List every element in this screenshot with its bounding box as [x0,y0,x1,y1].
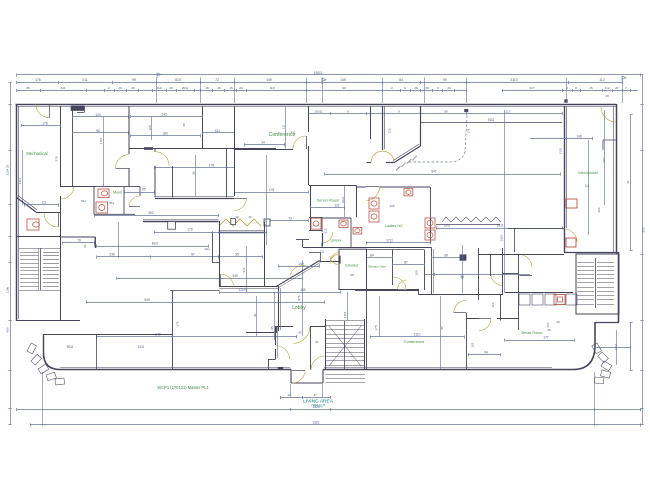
svg-text:175: 175 [269,188,275,192]
door arc ladies [366,187,380,201]
svg-text:212: 212 [604,86,609,90]
wall y187 ladies top [357,186,431,188]
kitchen counters [519,294,530,305]
svg-text:29: 29 [605,94,609,98]
svg-text:176: 176 [35,78,41,82]
door arc right top [601,107,616,122]
bottom-left inner wall y334 [44,334,173,336]
svg-text:47: 47 [313,393,317,397]
svg-text:217: 217 [505,109,510,113]
exterior top wall inner face [16,106,617,108]
door arc x155 [155,152,169,166]
svg-text:49: 49 [235,215,239,219]
entry stair rail [344,321,346,370]
svg-text:27: 27 [615,86,619,90]
dim vert x344 [344,186,346,218]
svg-text:25: 25 [589,86,593,90]
exterior bottom wall 2 [323,369,573,371]
wall x479 [478,248,480,300]
svg-text:9011: 9011 [67,345,74,349]
svg-text:2110: 2110 [510,78,517,82]
svg-text:278: 278 [55,156,59,161]
svg-text:1111: 1111 [18,178,22,184]
svg-text:170: 170 [209,163,215,167]
door arc mechanical bottom [61,186,74,199]
wall y197.4 thick [155,196,234,198]
wall x219.5 [219,221,221,287]
red toilet R2 [425,230,435,240]
svg-text:Elevator Gate: Elevator Gate [368,264,386,268]
wall x275 living [275,326,277,359]
svg-text:84: 84 [370,253,374,257]
wall y148.5 [129,148,276,150]
wall x393 [392,250,394,286]
svg-text:14: 14 [261,141,265,145]
svg-text:125: 125 [389,204,394,208]
column box 1 [168,222,176,230]
exterior right wall x616 [616,104,618,254]
door arc top-left [36,104,50,118]
wall x420 bay [420,106,422,146]
thick wall y231.5 [219,230,265,232]
dim 29 line [425,274,530,276]
wall jog x276 [276,326,278,333]
dim 149 lobby [279,266,320,268]
right inner dim x631 [630,115,632,250]
wall x95 below [96,334,98,369]
svg-text:29: 29 [414,86,418,90]
svg-text:119: 119 [491,302,495,307]
dim 611 line [203,132,235,134]
svg-text:149: 149 [298,262,304,266]
dim vert x440 [440,296,442,369]
wall x436 [431,248,433,296]
svg-text:111: 111 [320,249,325,253]
svg-text:29: 29 [118,86,122,90]
svg-text:95: 95 [235,253,239,257]
wall y326 lobby bottom [277,326,294,328]
dim 189 line [131,135,200,137]
dim 79 corridor [63,242,95,244]
zigzag insulation wall [442,217,501,222]
red toilet mens [98,189,109,198]
entry door arc [292,370,305,383]
svg-text:29: 29 [239,86,243,90]
svg-text:8111: 8111 [152,242,159,246]
svg-text:94: 94 [484,350,488,354]
dim 149 right [530,138,592,140]
svg-text:Unisex: Unisex [331,239,342,243]
svg-text:111: 111 [281,124,285,129]
svg-text:179: 179 [187,228,193,232]
entry stair diag [329,326,361,366]
svg-text:810: 810 [324,228,328,233]
svg-text:1810: 1810 [614,343,618,350]
wall x564 vertical [564,106,566,252]
door arc right mech bottom [564,229,577,242]
column on bottom wall [278,367,283,370]
kitchen wall y293 [505,292,573,294]
dim 95 roomA [72,132,129,134]
wall y212 vestibule top [36,212,61,214]
svg-text:1210: 1210 [238,288,245,292]
dim 547 line [325,174,560,176]
interior dim line y113 [309,113,563,115]
wall x308 server left [308,106,310,185]
dim vert x257 [256,296,258,336]
stairs left flight A [20,252,38,254]
svg-text:124: 124 [95,113,101,117]
door arc conference east [454,300,467,313]
wall x72 [72,106,74,187]
stairs left rail [40,248,42,290]
witness flag right [622,76,626,81]
corridor wall y252 left [309,252,321,254]
thick wall y220.7 [143,219,219,221]
wall x515 [514,228,516,252]
exterior left wall [16,104,18,321]
svg-text:1711: 1711 [386,239,393,243]
dim 159 line [279,292,340,294]
svg-text:89: 89 [26,86,30,90]
dim vert line x22 [22,150,24,205]
wall x61 vestibule right [60,196,62,237]
red toilet L1 [369,198,379,209]
svg-text:511: 511 [242,267,246,272]
dashed line blob [465,109,469,112]
svg-text:29: 29 [131,86,135,90]
dim vert x347 [347,292,349,320]
wall y149 conference [235,149,293,151]
dim y347 right [595,347,631,349]
svg-text:929: 929 [642,227,646,232]
svg-text:91: 91 [253,313,257,317]
gate room top [367,249,425,251]
svg-text:811: 811 [109,201,114,205]
stairs right box [576,254,619,314]
wall y252 right stair top [564,252,619,254]
dim 349 line [117,278,302,280]
dim 87 line [393,264,424,266]
dim vert x379 [379,296,381,337]
wall x172 [172,166,174,197]
door arc kitchen yellow [519,255,532,268]
svg-text:29: 29 [205,86,209,90]
wall y255 upper [479,254,564,256]
svg-text:175: 175 [176,321,180,326]
wall x172 bottom-left [172,291,174,370]
svg-text:167: 167 [546,322,550,327]
window chevrons [219,219,261,226]
door arc vestibule [44,213,58,227]
witness blob x566 [565,100,568,103]
dim vert line x302 [302,260,304,336]
svg-text:211: 211 [82,78,88,82]
stairs right flight A [577,262,594,264]
dim line 111 left [24,204,58,206]
svg-text:99: 99 [342,86,346,90]
svg-text:Mens: Mens [113,191,122,195]
wall x466 conference east [466,313,468,369]
svg-text:72: 72 [215,78,219,82]
svg-text:1710: 1710 [99,137,103,144]
svg-text:149: 149 [340,78,346,82]
svg-text:65: 65 [142,188,146,192]
dim vert x118 [118,222,120,258]
dimension line top row 1 [17,82,622,84]
door arc unisex [322,233,333,244]
dim 121 server [310,207,344,209]
svg-text:Lobby: Lobby [292,305,306,311]
mens box walls [94,187,140,215]
wall x518.5 [518,274,520,330]
wall y224 segment [436,224,500,226]
svg-text:2110: 2110 [559,147,563,154]
wall x264 [264,222,266,287]
wall y186 left [60,186,96,188]
wall y185 server top [309,185,357,187]
svg-text:349: 349 [155,332,161,336]
wall y322 bottom-right [595,322,619,324]
svg-text:42: 42 [287,393,291,397]
svg-text:217: 217 [529,86,534,90]
dim vert x246 [246,246,248,292]
svg-text:125: 125 [388,128,392,133]
wall vestibule diagonal inner [18,196,37,211]
unisex walls [322,217,351,247]
dim 349 line b [96,336,297,338]
svg-text:1011: 1011 [138,345,145,349]
wall y287 double [219,286,278,288]
wall x501 lower [500,294,502,321]
wall x490 [490,255,492,276]
svg-text:143: 143 [161,112,167,116]
bottom-left corner vertical x43 [43,334,45,353]
witness extension lines top [156,78,158,104]
wall y262 closet [212,262,220,264]
wall y332 lobby bottom left [246,332,275,334]
dim vert line x267 [266,155,268,245]
door arc on diagonal [290,266,307,276]
svg-text:61: 61 [626,180,630,184]
wall y123 [421,122,562,124]
door arc vestibule entry [311,356,325,370]
dimension line top row 2 [17,90,383,92]
svg-text:189: 189 [162,132,168,136]
dim 99 line [432,257,461,259]
svg-text:234: 234 [597,207,601,212]
right mech notch [603,140,616,150]
door arc mens [129,196,140,207]
dim line y397 [280,397,330,399]
svg-text:811: 811 [81,199,86,203]
svg-text:101: 101 [471,342,475,347]
wall x311 vestibule [310,326,312,370]
fan stairs bottom-right exterior [592,343,602,354]
wall y237 corridor top left [16,236,61,238]
dim 177 break [505,340,574,342]
wall x155 [154,149,156,198]
dim 14 line [245,144,285,146]
dim 1711 ladies [366,242,430,244]
svg-text:29: 29 [217,86,221,90]
exterior bottom-right rounded corner [573,322,595,370]
dim 94 conf [468,354,500,356]
dim 962 line [94,215,219,217]
svg-text:Conference: Conference [404,339,425,344]
dimension line right outer vertical [642,75,644,425]
red box right lower [566,238,576,247]
wall y228 right block [508,228,564,230]
svg-text:99: 99 [444,253,448,257]
svg-text:204: 204 [602,157,606,162]
svg-text:949: 949 [144,298,150,302]
red box right wall [566,199,577,208]
door arc y287 [221,274,234,287]
dim vert x195 [195,155,197,196]
exterior bottom wall inner face [60,367,290,369]
svg-text:119: 119 [270,86,275,90]
svg-text:95: 95 [96,129,100,133]
red kitchen sink [554,295,565,305]
dimension line top row 2 mid [383,90,466,92]
exterior top wall [16,104,617,106]
red toilet hall [353,227,362,234]
svg-text:95: 95 [298,331,302,335]
svg-text:Elevator: Elevator [345,264,359,268]
svg-text:95: 95 [270,326,274,330]
witness flag 2 [322,78,326,84]
svg-text:95: 95 [182,123,186,127]
wall x564 inner face [566,106,568,228]
svg-text:111: 111 [585,184,590,188]
svg-text:210: 210 [156,86,161,90]
wall x212 [212,232,214,263]
dim 176 mechanical [22,125,61,127]
svg-text:159: 159 [300,288,306,292]
wall corridor jog [61,237,96,247]
svg-text:99: 99 [444,109,448,113]
svg-text:609: 609 [5,327,9,332]
dim line x617 low [616,330,618,365]
entry witness lines [290,384,292,397]
red toilet center bath [311,218,321,229]
stairs right flight B [597,262,614,264]
red toilet unisex [339,220,348,227]
dim 84 [367,257,394,259]
entry stairs [326,320,366,322]
wall y289.5 gate bottom [360,289,419,291]
top wall notch [71,106,84,111]
wall stairwell bottom y321 [16,320,61,322]
wall x129 [128,106,130,187]
dimension line bottom row 1 [17,409,641,411]
elevator door bar [338,256,340,264]
svg-text:810: 810 [175,78,181,82]
elevator box [339,249,367,289]
door arc lobby bottom2 [277,346,290,359]
dim vert x463 [462,245,464,293]
wall y290 segment [367,290,420,292]
wall x320 jog [320,253,322,262]
wall x84 jog [84,106,86,112]
bay chamfer double [395,146,421,162]
wall x95 vertical [95,237,97,248]
svg-text:175: 175 [374,325,378,330]
exterior right wall lower x619 [618,252,620,322]
dim 65 line [124,192,155,194]
wall vestibule diagonal [16,197,36,212]
svg-text:13011: 13011 [314,71,323,75]
svg-text:1104 25: 1104 25 [5,164,9,175]
svg-text:2911: 2911 [444,224,451,228]
svg-text:15: 15 [229,86,233,90]
dimension line top row 0 overall 13011 [17,74,641,76]
svg-text:87: 87 [191,253,195,257]
wall x226 [226,149,228,197]
exterior right wall inner face [613,106,615,252]
svg-text:176: 176 [42,121,48,125]
svg-text:177: 177 [543,336,549,340]
svg-text:Server Room: Server Room [317,199,339,203]
svg-text:110b: 110b [5,286,9,293]
svg-text:Mechanical: Mechanical [26,151,47,156]
wall y295 conference top [419,294,503,296]
dim vert line x605 [604,110,606,205]
stairs right rail [595,258,597,308]
stairwell left right wall [60,237,62,321]
wall x503 [502,248,504,295]
door arc y273 [491,274,503,286]
wall x370 bay left [370,106,372,139]
svg-text:99: 99 [443,78,447,82]
svg-text:29: 29 [447,86,451,90]
svg-text:73: 73 [288,216,292,220]
svg-text:575: 575 [297,295,301,300]
diagonal corridor wall [277,261,320,287]
door arc y197 [234,198,247,211]
dim 949 line [86,302,325,304]
dimension line bottom row 2 [30,424,641,426]
door arc break [479,319,491,331]
wall stub y359 [268,359,276,361]
witness lines bottom [42,372,44,426]
svg-text:1111: 1111 [204,247,210,251]
dim y167 170 [155,167,235,169]
svg-text:29: 29 [169,86,173,90]
wall x356 server right [356,186,358,218]
entry stair walls [325,319,327,370]
exterior bottom wall inner face 2 [324,367,552,369]
svg-text:811: 811 [61,86,66,90]
wall y217.3 bath top [309,217,322,219]
svg-text:611: 611 [215,129,220,133]
wall mechanical right x61 [60,106,62,187]
svg-text:79: 79 [77,239,81,243]
door arc conference [293,136,306,149]
door arc corridor-gate [331,253,340,262]
dim 124 roomA [72,116,129,118]
red toilet L2 [369,211,379,222]
dark box 462 [460,255,466,260]
door arc room87 [393,277,406,290]
svg-text:121: 121 [334,204,340,208]
dashed ceiling line [409,115,467,162]
wall y162 bay [386,162,395,164]
svg-text:7406 sq ft: 7406 sq ft [311,404,325,408]
corridor jog left [296,239,309,241]
stairs left box lines [19,248,60,250]
